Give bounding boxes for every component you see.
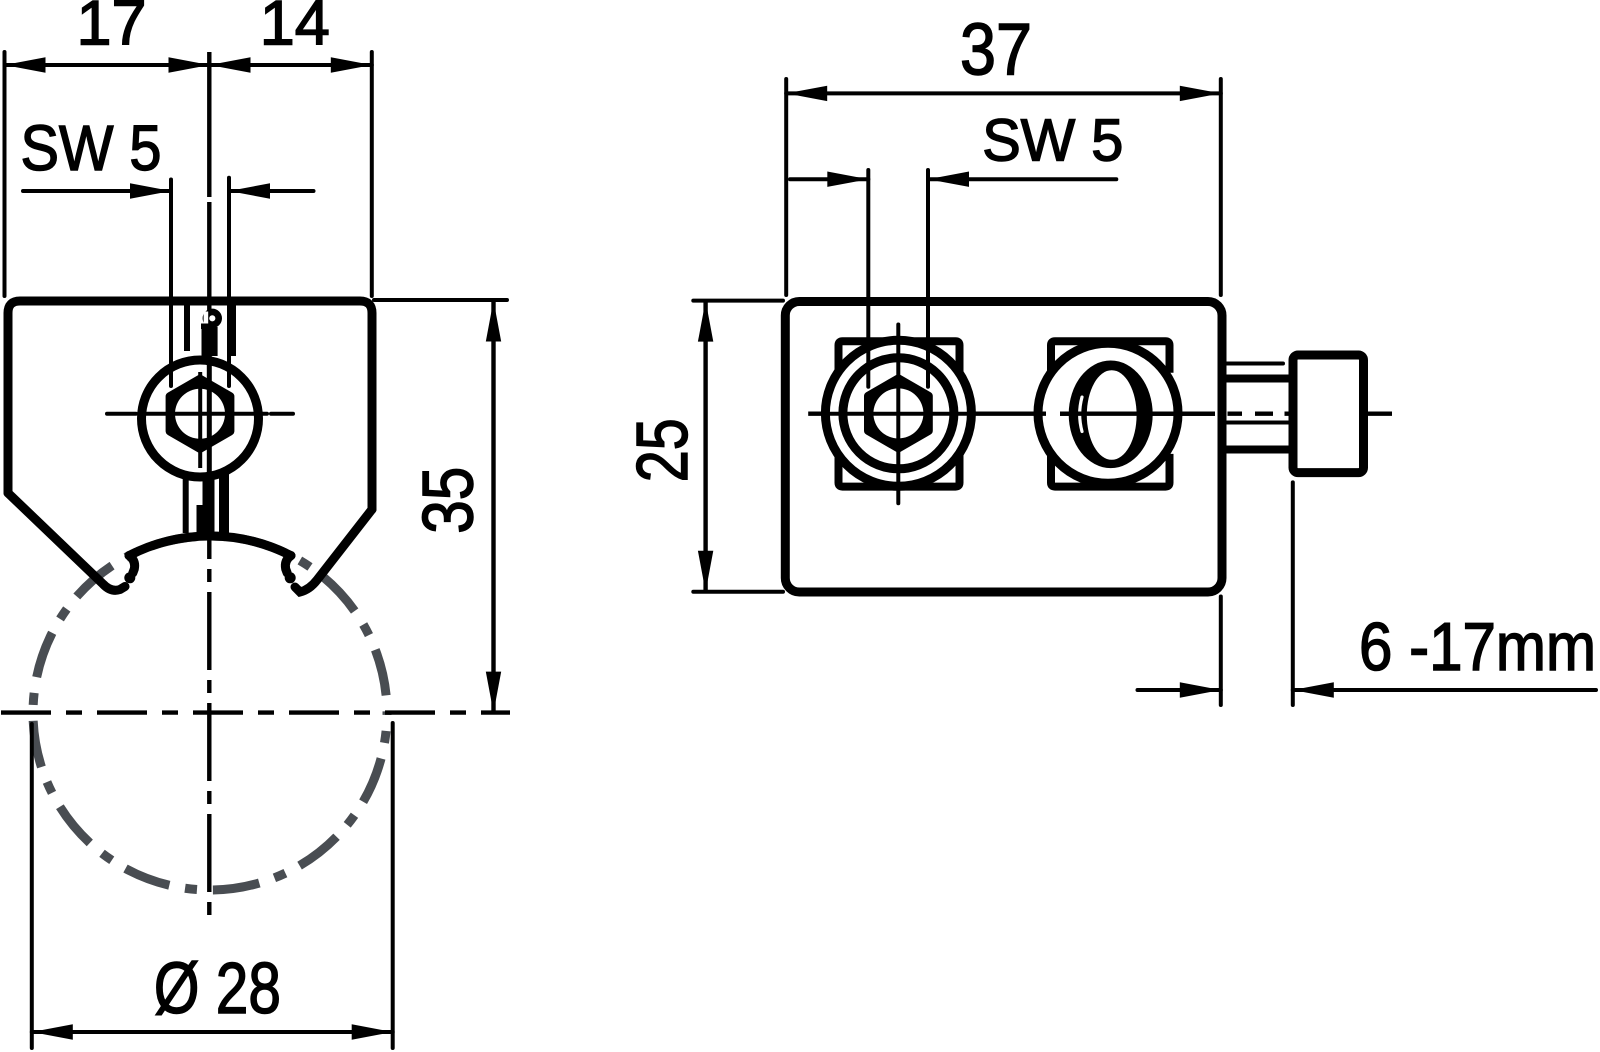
- svg-text:14: 14: [260, 0, 330, 59]
- vertical centerline of clamp: [207, 52, 211, 197]
- screw shaft lines: [1226, 362, 1283, 366]
- svg-text:25: 25: [623, 418, 703, 482]
- left hook curl: [129, 556, 135, 573]
- hole 2 horizontal centerline (through): [1040, 412, 1180, 416]
- slot right wall upper: [227, 303, 236, 356]
- crosshair horizontal: [107, 412, 293, 416]
- dimension 37: extension lines: [784, 79, 788, 295]
- slot left wall lower: [183, 465, 189, 533]
- hole 2 crescent sliver: [1080, 397, 1082, 431]
- screw shaft lower (in slot): [197, 468, 215, 538]
- svg-text:SW 5: SW 5: [21, 112, 162, 184]
- hole 1 vertical crosshair: [896, 325, 900, 504]
- dimension line 17: [5, 63, 210, 67]
- hole 1 outer circle: [825, 340, 971, 486]
- hole 1 hex socket: [869, 379, 929, 448]
- svg-text:SW 5: SW 5: [982, 108, 1123, 174]
- centerline through hole 2: [1060, 412, 1215, 416]
- crosshair vertical (screw axis): [198, 372, 202, 468]
- dimension 6-17: dim line + arrows: [1138, 688, 1221, 692]
- dimension 25: dim line + arrows: [703, 302, 707, 591]
- spring curl on screw: [206, 312, 219, 325]
- dimension SW5 (left view): [23, 189, 171, 193]
- clamp bottom cutout arc: [129, 536, 291, 556]
- clamp centerline through screw circle: [207, 330, 212, 500]
- hole 1 counterbore circle: [843, 358, 954, 469]
- svg-text:37: 37: [960, 10, 1032, 91]
- dimension 37: dim line: [786, 91, 1221, 95]
- hole 1 horizontal crosshair: [830, 412, 967, 416]
- dimension Ø28: extension lines: [30, 724, 34, 1048]
- extension line 17 left: [3, 52, 7, 296]
- extension line 14 right: [370, 52, 374, 296]
- dimension 35: dim line + arrows: [491, 302, 495, 711]
- screw head: [1293, 355, 1364, 473]
- horizontal centerline of tube circle: [1, 710, 510, 714]
- screw shaft upper (in slot): [202, 327, 218, 356]
- hex inscribed circle (white): [175, 389, 225, 439]
- horizontal centerline: [808, 412, 1392, 416]
- slot right wall lower: [219, 462, 229, 537]
- svg-text:6 -17mm: 6 -17mm: [1359, 609, 1596, 685]
- dimension 6-17: extension lines: [1219, 597, 1223, 706]
- right chamfer + hook base: [295, 509, 372, 592]
- dimension SW5 (right view): [790, 177, 868, 181]
- svg-text:Ø 28: Ø 28: [154, 949, 281, 1029]
- tube dash-dot circle (gray, Ø28): [33, 536, 387, 890]
- screw head circle: [142, 360, 259, 477]
- SW5 tick lines: [866, 170, 870, 387]
- dimension 35: extension line: [374, 298, 507, 302]
- clamp body outline: [8, 301, 372, 509]
- hole 2 clamp screw oval: [1069, 361, 1153, 469]
- dimension line 14: [210, 63, 372, 67]
- hex socket: [170, 379, 230, 448]
- SW5 tick lines: [169, 180, 173, 387]
- hole 2 boss outline: [1051, 341, 1170, 373]
- body block: [785, 302, 1222, 593]
- dimension Ø28: dim line + arrows: [32, 1030, 393, 1034]
- left chamfer + hook base: [8, 493, 125, 590]
- svg-text:17: 17: [76, 0, 146, 59]
- right hook curl: [285, 556, 291, 573]
- hole 2 outer circle: [1038, 343, 1178, 483]
- dimension 25: extension lines: [693, 299, 783, 303]
- svg-text:35: 35: [409, 467, 488, 534]
- slot left wall upper: [184, 303, 190, 351]
- hole 1 boss outline: [839, 341, 960, 371]
